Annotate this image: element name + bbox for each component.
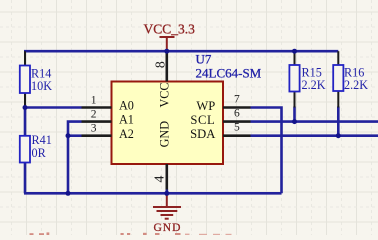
svg-text:GND: GND	[154, 222, 182, 234]
svg-text:WP: WP	[196, 99, 215, 113]
junction A2 node	[66, 133, 71, 138]
junction VCC stem	[164, 49, 169, 54]
svg-text:2.2K: 2.2K	[302, 78, 326, 92]
svg-text:4: 4	[152, 175, 167, 182]
svg-text:7: 7	[234, 94, 240, 106]
svg-text:8: 8	[152, 61, 167, 68]
svg-text:10K: 10K	[31, 79, 52, 93]
wire bottom GND rail	[24, 192, 282, 195]
ground symbol	[153, 193, 181, 218]
pin 8 VCC stub	[166, 52, 169, 82]
svg-text:1: 1	[91, 94, 97, 106]
junction R15 SCL	[292, 119, 297, 124]
resistor R41	[20, 136, 30, 163]
svg-text:GND: GND	[158, 121, 172, 148]
svg-text:VCC_3.3: VCC_3.3	[144, 22, 196, 37]
wire left column R14-R41	[24, 108, 27, 136]
power symbol VCC_3.3	[160, 37, 175, 51]
wire R16 bottom to SDA	[337, 107, 340, 136]
svg-text:A2: A2	[119, 127, 134, 141]
resistor R15	[289, 51, 299, 107]
svg-text:VCC: VCC	[158, 82, 172, 107]
wire pin3 A2	[68, 134, 82, 137]
svg-text:A1: A1	[119, 113, 134, 127]
wire WP to ground	[251, 108, 282, 194]
resistor R14	[20, 51, 30, 107]
pin 2 A1 stub	[82, 120, 112, 123]
wire pin4 to rail	[166, 190, 169, 194]
IC U7 24LC64-SM EEPROM body	[112, 82, 224, 165]
junction bottom A chain	[66, 191, 71, 196]
wire SDA	[251, 134, 378, 137]
wire VCC rail top	[24, 50, 338, 53]
junction GND pin4	[164, 191, 169, 196]
wire left column below R41	[24, 163, 27, 194]
svg-text:5: 5	[234, 122, 240, 134]
wire pin2 A1 corner	[68, 122, 82, 194]
svg-text:2.2K: 2.2K	[344, 78, 368, 92]
wire R15 bottom to SCL	[293, 107, 296, 122]
resistor R16	[333, 65, 343, 108]
junction R15 top	[292, 49, 297, 54]
wire SCL	[251, 120, 378, 123]
pin 7 WP stub	[223, 106, 251, 109]
svg-text:24LC64-SM: 24LC64-SM	[196, 65, 262, 80]
cropped text fragments bottom edge	[30, 232, 181, 235]
svg-text:0R: 0R	[32, 146, 47, 160]
svg-text:SCL: SCL	[190, 113, 215, 127]
pin 3 A2 stub	[82, 134, 112, 137]
svg-text:R41: R41	[32, 133, 52, 147]
wire pin1 A0	[25, 106, 82, 109]
svg-text:A0: A0	[119, 99, 134, 113]
junction R16 SDA	[336, 133, 341, 138]
pin 4 GND stub	[166, 164, 169, 191]
svg-text:2: 2	[91, 108, 97, 120]
junction R14 pin1	[23, 105, 28, 110]
svg-text:3: 3	[91, 123, 97, 135]
wire R16 top from rail	[337, 51, 339, 65]
svg-text:6: 6	[234, 108, 240, 120]
svg-text:SDA: SDA	[190, 127, 215, 141]
pin 1 A0 stub	[82, 106, 112, 109]
pin 6 SCL stub	[223, 120, 251, 123]
pin 5 SDA stub	[223, 134, 251, 137]
